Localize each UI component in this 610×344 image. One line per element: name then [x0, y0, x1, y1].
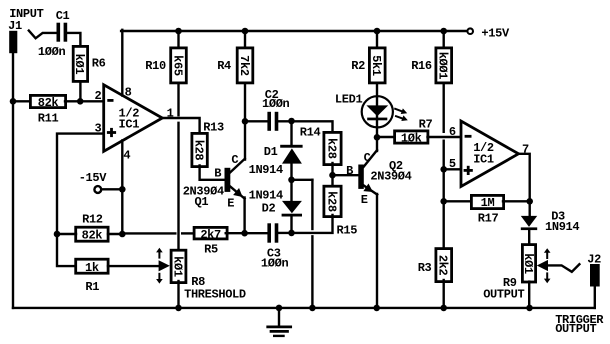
potentiometer R8 wiper arrow — [159, 260, 170, 271]
wire R9 bottom to rail — [528, 282, 530, 308]
LED LED1 light arrow 1 — [395, 109, 402, 112]
terminal -15V — [94, 186, 101, 193]
svg-text:+15V: +15V — [481, 26, 510, 40]
node rail/R4 junction — [242, 28, 249, 35]
wire bottom rail — [13, 307, 595, 309]
wire R3 bottom to rail — [443, 280, 445, 308]
op-amp U1b plus sign — [464, 169, 473, 172]
transistor Q2 base bar — [358, 165, 364, 189]
wire R12 row to R5 (crossover gap left) — [122, 232, 175, 234]
node J1/R11 junction — [10, 98, 17, 105]
wire pin 5 — [444, 168, 460, 170]
svg-text:D1: D1 — [264, 145, 278, 159]
wire to R3 top — [443, 201, 445, 248]
svg-text:R15: R15 — [337, 224, 358, 238]
wire -15V to pin 4 line — [101, 188, 122, 190]
wire R13 bottom to Q1 base — [200, 166, 225, 180]
wire node to D3 — [529, 201, 531, 216]
transistor Q2 collector — [364, 150, 377, 167]
svg-text:R3: R3 — [418, 261, 432, 275]
wire C3 right to R15 bottom — [279, 215, 333, 233]
wire R11 right to op-amp pin 2 — [65, 100, 103, 102]
node D2/C3 junction — [288, 230, 295, 237]
wire J2 down to rail — [594, 286, 596, 308]
resistor R5 — [194, 227, 227, 239]
resistor R17 — [471, 195, 503, 208]
svg-text:2: 2 — [95, 89, 102, 103]
node output/D3 junction — [526, 198, 533, 205]
svg-text:kØ1: kØ1 — [170, 256, 184, 277]
wire R14 to R15 — [331, 163, 333, 188]
wire op-amp output pin1 to R13 — [161, 118, 200, 134]
potentiometer R9 — [522, 245, 535, 282]
wire node A to D1 — [290, 121, 292, 146]
op-amp U1b minus sign — [465, 135, 472, 138]
transistor Q1 collector — [230, 159, 245, 173]
node Q1 emitter/C3 junction — [241, 230, 248, 237]
wire R7 to op-amp pin 6 — [428, 136, 461, 138]
diode D1 cathode bar — [280, 145, 302, 148]
svg-text:R13: R13 — [203, 120, 224, 134]
svg-text:1ØØn: 1ØØn — [38, 45, 66, 59]
wire R16 to pin5 node — [443, 141, 445, 170]
node pin3 branch/R12 junction — [54, 231, 61, 238]
svg-text:R1: R1 — [85, 280, 99, 294]
svg-text:B: B — [346, 164, 353, 178]
LED LED1 cathode bar — [367, 118, 387, 121]
svg-text:1k: 1k — [85, 261, 99, 275]
svg-text:R5: R5 — [204, 243, 218, 257]
svg-text:k28: k28 — [324, 191, 338, 212]
jack J2 output connector bar — [590, 264, 600, 287]
resistor R2 — [369, 48, 385, 83]
node R9/rail junction — [526, 305, 533, 312]
LED LED1 triangle — [366, 105, 388, 116]
svg-text:LED1: LED1 — [335, 93, 363, 107]
wire R2 top — [376, 31, 378, 48]
svg-text:IC1: IC1 — [473, 152, 494, 166]
LED LED1 light arrow 2 — [396, 116, 403, 119]
wire R4 bottom to Q1 collector — [244, 83, 246, 160]
capacitor C2 — [267, 112, 271, 131]
svg-text:1M: 1M — [481, 196, 495, 210]
svg-text:2k7: 2k7 — [200, 228, 221, 242]
transistor Q1 emitter arrow — [233, 188, 242, 197]
wire R10 top — [177, 31, 179, 48]
svg-text:THRESHOLD: THRESHOLD — [184, 288, 246, 302]
wire R1 right to R8 wiper — [108, 265, 159, 267]
wire pin 4 down — [121, 141, 123, 235]
resistor R12 — [76, 227, 108, 241]
node R4/C2 junction — [242, 118, 249, 125]
svg-text:R7: R7 — [419, 117, 433, 131]
resistor R7 — [395, 131, 428, 143]
svg-text:1N914: 1N914 — [249, 188, 283, 202]
node rail/R16 junction — [440, 28, 447, 35]
svg-text:R14: R14 — [300, 126, 321, 140]
diode D1 triangle — [282, 148, 302, 163]
svg-text:kØØ1: kØØ1 — [436, 52, 450, 80]
wire R11 left — [13, 100, 31, 102]
svg-text:R11: R11 — [38, 111, 59, 125]
resistor R1 — [76, 259, 108, 273]
svg-text:J2: J2 — [587, 253, 601, 267]
wire R10 to R8 top — [177, 123, 179, 250]
node R16/1M junction — [440, 198, 447, 205]
wire +15V top rail — [121, 30, 467, 32]
op-amp U1b 1/2 IC1 — [461, 121, 519, 187]
potentiometer R8 adjust arrow up — [156, 248, 163, 253]
resistor R16 — [436, 48, 452, 83]
wire D3 to R9 — [528, 230, 530, 245]
resistor R10 — [171, 48, 187, 83]
svg-text:7k2: 7k2 — [237, 55, 251, 76]
svg-text:2k2: 2k2 — [436, 255, 450, 276]
svg-text:R17: R17 — [478, 212, 499, 226]
wire R12 left — [57, 233, 76, 235]
svg-text:E: E — [361, 193, 368, 207]
wire Q1 emitter down — [243, 198, 245, 234]
transistor Q2 emitter — [364, 186, 377, 195]
transistor Q1 base bar — [225, 168, 231, 192]
wire R16 node down to 1M node — [443, 169, 445, 201]
resistor R15 — [324, 186, 341, 216]
node rail/nodeB junction — [309, 305, 316, 312]
diode D2 triangle — [282, 201, 302, 213]
wire C2 left — [245, 120, 267, 122]
svg-text:OUTPUT: OUTPUT — [483, 287, 524, 301]
wire R6 bottom to node — [79, 83, 81, 101]
wire R12 row to R5 (crossover gap right) — [182, 232, 194, 234]
svg-text:R4: R4 — [217, 59, 231, 73]
svg-text:82k: 82k — [38, 96, 59, 110]
wire R12 right — [108, 233, 122, 235]
node pin4/-15V junction — [119, 186, 126, 193]
node R8/rail junction — [175, 305, 182, 312]
transistor Q1 emitter — [230, 187, 244, 199]
svg-text:C1: C1 — [56, 9, 70, 23]
wire pin 3 input branch — [57, 134, 103, 267]
svg-text:IC1: IC1 — [119, 118, 140, 132]
wire J1 tip hook to C1 — [29, 31, 56, 39]
wire D1 to D2 — [290, 164, 292, 202]
potentiometer R8 adjust arrow down — [156, 279, 163, 284]
wire R2 to LED to node — [376, 83, 378, 139]
node rail/ground junction — [276, 305, 283, 312]
svg-text:kØ1: kØ1 — [521, 253, 535, 274]
node rail/R3 junction — [440, 305, 447, 312]
diode D3 cathode bar — [521, 227, 537, 230]
svg-text:R2: R2 — [351, 59, 365, 73]
jack J1 input connector bar — [9, 31, 17, 53]
svg-text:OUTPUT: OUTPUT — [555, 322, 596, 336]
svg-text:2N39Ø4: 2N39Ø4 — [370, 170, 411, 184]
wire C2 right to R14 top — [279, 121, 333, 132]
svg-text:1N914: 1N914 — [545, 220, 579, 234]
svg-text:4: 4 — [123, 148, 130, 162]
svg-text:1ØØn: 1ØØn — [261, 257, 289, 271]
op-amp U1a plus sign — [107, 131, 116, 134]
potentiometer R9 wiper arrow — [537, 260, 548, 271]
wire D2 to C3 node — [290, 216, 292, 233]
svg-text:1N914: 1N914 — [249, 163, 283, 177]
resistor R11 — [30, 95, 65, 107]
wire Q2 base — [333, 174, 359, 176]
svg-text:k28: k28 — [324, 138, 338, 159]
LED LED1 body — [362, 96, 393, 127]
wire 1M left — [444, 200, 472, 202]
node C2/D1 junction — [288, 118, 295, 125]
terminal +15V — [467, 28, 473, 34]
svg-text:6: 6 — [449, 125, 456, 139]
resistor R6 — [73, 46, 87, 81]
node R6/R11/pin2 junction — [77, 98, 84, 105]
svg-text:C: C — [364, 151, 371, 165]
svg-text:Q1: Q1 — [195, 195, 209, 209]
wire R9 wiper to J2 hook — [549, 264, 580, 272]
svg-text:R6: R6 — [92, 57, 106, 71]
node rail/R10 junction — [175, 28, 182, 35]
wire LED node to R7 — [377, 136, 395, 138]
wire C1 to R6 top — [67, 33, 80, 48]
diode D2 cathode bar — [282, 214, 302, 217]
potentiometer R8 — [171, 250, 186, 282]
diode D3 triangle — [521, 216, 537, 227]
wire node B down to rail — [311, 236, 313, 308]
svg-text:R16: R16 — [411, 59, 432, 73]
resistor R4 — [237, 48, 253, 83]
node pin4 line/R12 junction — [119, 231, 126, 238]
wire R4 top — [244, 31, 246, 48]
op-amp U1a 1/2 IC1 — [104, 85, 163, 152]
svg-text:1Øk: 1Øk — [401, 132, 422, 146]
wire node B right — [292, 179, 313, 181]
node rail/Q2 emitter junction — [373, 305, 380, 312]
resistor R3 — [436, 249, 452, 282]
op-amp U1a minus sign — [107, 99, 113, 102]
svg-text:k65: k65 — [170, 55, 184, 76]
svg-text:k28: k28 — [191, 140, 205, 161]
capacitor C1 — [57, 23, 61, 42]
wire 1M right — [503, 200, 530, 202]
svg-text:R12: R12 — [82, 213, 103, 227]
ground symbol — [278, 308, 280, 327]
svg-text:C: C — [231, 153, 238, 167]
node R14/R15/Q2 base junction — [329, 172, 336, 179]
wire R8 bottom to rail — [177, 281, 179, 308]
svg-text:E: E — [227, 196, 234, 210]
node rail/R2 junction — [374, 28, 381, 35]
wire op-amp output pin 7 — [517, 154, 530, 202]
wire R16 bottom (crossover gap) — [443, 83, 445, 132]
capacitor C3 — [267, 223, 271, 242]
wire node B down (crossover gap) — [311, 180, 313, 229]
node D1/D2 junction — [288, 177, 295, 184]
wire Q2 emitter down to rail — [376, 194, 378, 308]
svg-text:5k1: 5k1 — [369, 55, 383, 76]
wire left rail J1 down — [12, 53, 14, 308]
svg-text:8: 8 — [125, 85, 132, 99]
resistor R14 — [324, 132, 341, 164]
svg-text:D2: D2 — [262, 201, 276, 215]
wire R5 right to C3 — [226, 232, 267, 234]
wire R16 top — [443, 31, 445, 48]
node R16/pin5 junction — [440, 166, 447, 173]
svg-text:R10: R10 — [145, 59, 166, 73]
resistor R13 — [192, 133, 207, 166]
svg-text:-15V: -15V — [79, 171, 108, 185]
wire Q2 collector up to LED node — [376, 137, 378, 151]
wire pin 8 to +15V rail — [121, 30, 123, 96]
svg-text:B: B — [214, 166, 221, 180]
svg-text:1ØØn: 1ØØn — [262, 97, 290, 111]
potentiometer R9 adjust arrow down — [544, 279, 551, 284]
potentiometer R9 adjust arrow up — [544, 248, 551, 253]
transistor Q2 emitter arrow — [363, 183, 373, 192]
svg-text:J1: J1 — [8, 19, 22, 33]
wire R10 bottom (crossover gap) — [177, 83, 179, 115]
svg-text:82k: 82k — [82, 229, 103, 243]
node LED/R7/Q2 junction — [374, 134, 381, 141]
svg-text:kØ1: kØ1 — [72, 54, 86, 75]
